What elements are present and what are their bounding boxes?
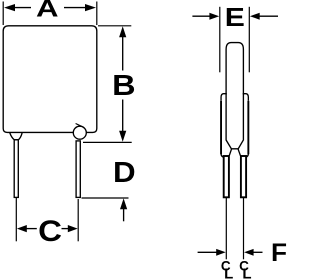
dim C right arrowhead (pointing right): [68, 225, 78, 232]
dim B bottom arrowhead: [119, 131, 126, 142]
svg-text:C: C: [38, 213, 62, 247]
left lead solder fillet (front view): [10, 133, 22, 140]
dim A dimension line left segment: [14, 7, 32, 9]
left lead root skirt (side view): [229, 149, 231, 156]
right shoulder line (side view): [247, 101, 249, 154]
left shoulder line (side view): [220, 101, 222, 154]
dim A extension line left: [2, 2, 4, 26]
left shoulder step (side view): [221, 94, 226, 101]
dim C dimension line right segment: [62, 228, 69, 230]
right lead solder blob (front view): [73, 126, 86, 139]
right lead centerline (side view): [243, 197, 245, 259]
right shoulder bottom step: [246, 154, 249, 157]
dim D extension line (lead end level): [82, 197, 129, 199]
right lead (front view): [76, 141, 80, 198]
dim B top extension line: [98, 25, 131, 27]
dim B bottom extension line: [83, 141, 132, 143]
dim E right dimension line: [260, 15, 279, 17]
right lead root skirt (side view): [238, 149, 241, 156]
dim A right arrowhead: [85, 4, 96, 11]
left lead centerline (side view): [225, 197, 227, 259]
dim C extension line right: [77, 199, 79, 241]
dim A dimension line right segment: [64, 7, 87, 9]
right lead (side view): [241, 156, 246, 197]
left lead (side view): [224, 156, 229, 197]
svg-text:D: D: [113, 157, 136, 189]
dim B dimension line lower segment: [122, 100, 124, 132]
right shoulder step (side view): [243, 94, 248, 101]
svg-text:A: A: [36, 0, 59, 22]
svg-text:L: L: [242, 266, 251, 279]
dim B top arrowhead: [119, 26, 126, 37]
dim E extension line left (side view): [219, 7, 221, 73]
left shoulder bottom step: [221, 154, 224, 157]
svg-text:E: E: [225, 3, 245, 31]
dim E extension line right (side view): [248, 7, 250, 73]
component body (front view): [3, 26, 97, 133]
dim E left dimension line: [192, 15, 210, 17]
dim C extension line left: [15, 197, 17, 241]
dim E left arrowhead: [209, 13, 219, 20]
component body (side view) with bottom notch: [226, 43, 243, 95]
dim D arrowhead (pointing up): [120, 198, 127, 209]
dim C left arrowhead (pointing left): [17, 225, 27, 232]
dim F left dimension line: [198, 251, 217, 253]
svg-text:B: B: [112, 69, 135, 102]
dim C dimension line left segment: [27, 228, 37, 230]
dim A left arrowhead: [4, 4, 15, 11]
dim D arrow tail: [123, 209, 125, 221]
dim B dimension line upper segment: [122, 37, 124, 71]
dim F left arrowhead: [216, 249, 226, 256]
dim F right arrowhead: [244, 249, 254, 256]
body sides lower (side view): [226, 93, 243, 149]
dim E right arrowhead: [250, 13, 260, 20]
svg-text:L: L: [224, 266, 233, 279]
blob highlight tick: [76, 124, 82, 127]
dim F right dimension line: [254, 251, 263, 253]
svg-text:F: F: [271, 240, 287, 267]
left lead (front view): [14, 140, 18, 198]
dim A extension line right: [96, 2, 98, 26]
